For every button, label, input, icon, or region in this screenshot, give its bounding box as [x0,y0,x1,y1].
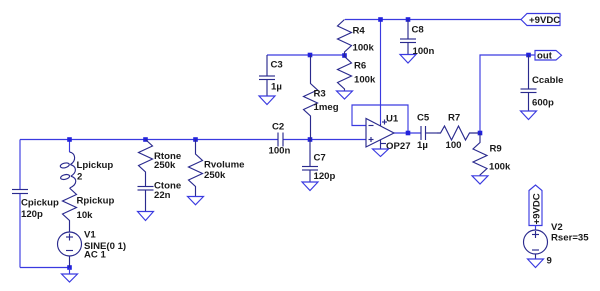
svg-text:V1: V1 [84,230,96,241]
wire left loop vertical lower [19,194,21,268]
svg-text:C8: C8 [412,25,425,36]
wire feedback loop output to inverting input [352,105,408,133]
svg-text:Ccable: Ccable [532,75,563,86]
svg-text:100n: 100n [269,146,291,157]
capacitor Ctone [138,187,154,212]
svg-text:1µ: 1µ [417,140,428,151]
ground under op-amp [373,149,389,157]
svg-text:2: 2 [77,172,82,183]
inductor Lpickup [70,152,76,188]
voltage source V2 [524,230,548,259]
svg-text:C3: C3 [271,60,283,71]
resistor R9 [473,133,487,176]
wire Lpickup branch lead [69,140,71,153]
svg-text:C2: C2 [272,122,284,133]
capacitor C8 [400,20,416,55]
wire op-amp output [394,132,421,134]
ground under R9 [472,176,488,184]
capacitor C3 [259,55,275,96]
wire V+ drop to op-amp [380,20,382,125]
svg-text:+9VDC: +9VDC [529,15,560,26]
wire top +9V rail [345,19,521,21]
wire left loop vertical upper [19,140,21,190]
svg-text:120p: 120p [314,171,336,182]
resistor R7 [437,126,478,140]
wire bias net C3 to R4/R6 junction [267,54,345,56]
svg-text:Lpickup: Lpickup [77,160,114,171]
ground under R6 [337,91,353,99]
node dot Rtone tap [143,137,148,142]
svg-text:out: out [537,51,553,62]
svg-text:120p: 120p [21,209,43,220]
svg-text:Rpickup: Rpickup [77,196,115,207]
node dot Ccable tap [526,53,531,58]
capacitor Cpickup [12,190,28,194]
svg-text:R9: R9 [490,144,502,155]
resistor R3 [304,55,318,140]
svg-text:100k: 100k [489,162,511,173]
resistor R6 [338,56,352,92]
node dot R3/C7 tap [308,137,313,142]
voltage source V1 [58,232,82,268]
svg-text:C7: C7 [314,153,326,164]
node dot R3 top [308,53,313,58]
svg-text:Rvolume: Rvolume [204,160,245,171]
svg-text:Cpickup: Cpickup [21,198,59,209]
svg-text:Rser=35: Rser=35 [551,233,589,244]
node dot V+ rail [378,17,383,22]
ground under Rvolume [188,197,204,205]
resistor Rpickup [63,188,77,232]
svg-text:C5: C5 [417,113,430,124]
capacitor C2 [278,133,283,147]
wire out net vertical [480,55,535,133]
ground under C3 [259,96,275,105]
capacitor Ccable [521,55,537,111]
svg-text:AC 1: AC 1 [84,249,107,260]
svg-text:V2: V2 [551,222,563,233]
node dot V1 bottom [67,265,72,270]
svg-text:250k: 250k [154,160,176,171]
svg-text:R3: R3 [314,89,326,100]
svg-text:R6: R6 [354,61,366,72]
svg-text:U1: U1 [386,114,399,125]
svg-text:22n: 22n [154,190,171,201]
capacitor C7 [302,140,318,182]
svg-text:R4: R4 [353,26,366,37]
ground under Ctone [138,212,154,221]
svg-text:1meg: 1meg [314,102,339,113]
node dot op-amp output [406,131,411,136]
node dot Lpickup tap [67,137,72,142]
flag +9VDC top right [521,14,560,26]
svg-text:100: 100 [446,140,462,151]
capacitor C5 [421,126,437,140]
ground under C8 [400,55,416,64]
flag +9VDC at V2 [529,185,542,230]
svg-text:1µ: 1µ [271,82,282,93]
ground under V1 [62,268,78,283]
node dot R4/R6 junction [342,53,347,58]
flag out [535,51,562,61]
resistor R4 [338,20,352,56]
svg-text:+9VDC: +9VDC [532,193,543,224]
ground under C7 [302,182,318,191]
svg-text:100k: 100k [353,43,375,54]
node dot R7/R9 junction [478,131,483,136]
node dot Rvolume tap [193,137,198,142]
svg-text:250k: 250k [204,170,226,181]
resistor Rvolume [189,140,203,197]
node dot C8 tap [406,17,411,22]
svg-text:600p: 600p [532,98,554,109]
wire main signal net right [283,139,366,141]
resistor Rtone [139,140,153,187]
op-amp U1 [366,119,394,149]
svg-text:10k: 10k [77,210,94,221]
ground under V2 [528,259,544,268]
wire bottom [20,267,70,269]
svg-text:9: 9 [547,256,552,267]
svg-text:OP27: OP27 [386,141,411,152]
svg-text:100k: 100k [354,75,376,86]
ground under Ccable [521,111,537,120]
svg-text:R7: R7 [448,113,460,124]
wire main signal net left [20,139,278,141]
